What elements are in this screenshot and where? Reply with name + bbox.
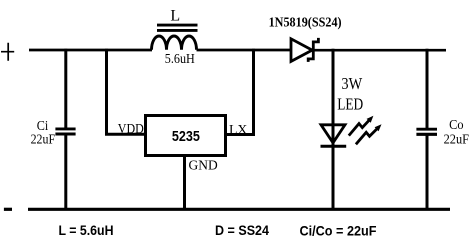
svg-text:1N5819(SS24): 1N5819(SS24) bbox=[269, 14, 342, 29]
svg-text:D = SS24: D = SS24 bbox=[215, 222, 269, 238]
wire LED branch bbox=[332, 49, 335, 211]
svg-text:L: L bbox=[170, 8, 180, 25]
svg-text:L = 5.6uH: L = 5.6uH bbox=[59, 222, 114, 238]
svg-text:Ci/Co = 22uF: Ci/Co = 22uF bbox=[300, 222, 377, 238]
svg-text:3W: 3W bbox=[341, 74, 362, 93]
svg-text:GND: GND bbox=[189, 159, 218, 174]
wire LX branch bbox=[225, 49, 255, 136]
diode D 1N5819 bbox=[291, 38, 318, 62]
- terminal bbox=[4, 208, 12, 211]
svg-text:22uF: 22uF bbox=[444, 133, 470, 148]
LED D2 bbox=[321, 125, 347, 147]
wire top rail right segment (diode to end) bbox=[314, 49, 447, 52]
LED emission arrow 1 bbox=[349, 120, 370, 136]
IC U1 5235 regulator bbox=[146, 116, 226, 156]
capacitor Ci bbox=[55, 49, 75, 211]
+ terminal bbox=[1, 43, 14, 61]
svg-text:LED: LED bbox=[337, 94, 363, 113]
svg-text:Co: Co bbox=[449, 118, 463, 133]
svg-text:5.6uH: 5.6uH bbox=[165, 52, 195, 67]
wire top rail left segment bbox=[29, 49, 152, 52]
capacitor Co bbox=[416, 49, 437, 211]
svg-text:5235: 5235 bbox=[172, 129, 200, 145]
svg-text:22uF: 22uF bbox=[31, 133, 56, 148]
wire GND lead bbox=[183, 155, 186, 211]
wire VDD branch bbox=[105, 49, 147, 134]
inductor L bbox=[152, 25, 198, 50]
LED emission arrow 2 bbox=[356, 129, 377, 145]
wire bottom rail bbox=[28, 208, 450, 211]
wire top rail middle segment (inductor to diode) bbox=[197, 49, 292, 52]
svg-text:VDD: VDD bbox=[118, 121, 144, 136]
